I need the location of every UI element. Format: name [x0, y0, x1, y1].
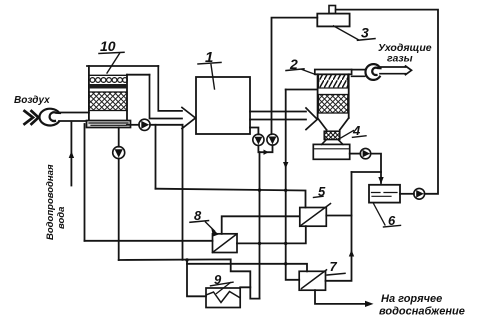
wire: vessel 10 drain V84 down to H3 — [84, 124, 86, 241]
exhaust outlet duct with arrow — [380, 67, 406, 74]
neck to body of 4 — [322, 140, 344, 145]
fan F2 (exhaust fan) — [365, 64, 380, 80]
wire: tank 6 to pump 6 — [400, 193, 414, 195]
svg-text:На горячее: На горячее — [381, 293, 442, 305]
exhaust pipe from vessel 2 lid — [352, 70, 365, 77]
contact economizer 10 (vessel) — [87, 66, 159, 128]
pump PA (right of vessel 10) — [127, 124, 139, 126]
component 4 body — [313, 144, 349, 159]
air inlet symbol — [25, 111, 39, 124]
wire: flue duct box1 to scrubber 2 — [250, 112, 306, 120]
wire: pump PB drain down (V119) — [118, 159, 120, 260]
support plate — [89, 84, 127, 89]
label 4 — [352, 123, 361, 138]
svg-text:Водопроводная: Водопроводная — [45, 164, 56, 240]
fan F1 (air blower) — [39, 109, 60, 126]
pump P1 — [253, 134, 264, 145]
wire: box1 outlet to pump P1 — [250, 128, 258, 135]
wire: drop leg to H1 (node V155) — [155, 125, 157, 189]
wire: pump PA discharge header — [150, 124, 182, 126]
wire: air duct fan to scrubber 10 — [59, 113, 89, 122]
heat exchanger 7 — [299, 271, 325, 290]
water tray — [87, 121, 131, 128]
heat exchanger 8 — [213, 234, 238, 253]
wire: staircase from heater 9 outlet — [240, 287, 259, 298]
label 9 — [214, 272, 222, 287]
label 8 — [194, 208, 202, 223]
wire H1: from V155 to HX5 top — [156, 189, 306, 208]
wire: tap water riser with up arrow — [70, 123, 72, 186]
label Уходящие газы — [378, 42, 432, 65]
wire: main vertical from pump union down (node V260) — [259, 152, 261, 298]
label 2 — [289, 56, 298, 72]
wire: from scrubber 2 down-leg V287 with arrow — [286, 89, 318, 91]
wire: U link under pumps P1 P2 — [258, 145, 272, 152]
pump P4 (after feeder 4) — [350, 153, 361, 155]
bubble caps row — [90, 78, 127, 83]
expansion tank 3 — [317, 14, 349, 27]
duct arrowhead into vessel 2 — [306, 108, 317, 130]
pump PB (under vessel 10) — [118, 128, 120, 147]
svg-text:вода: вода — [56, 207, 67, 229]
wire H3: to heat exchanger 8 inlet — [85, 240, 213, 242]
label 5 — [318, 184, 326, 199]
rotary feeder 4 (hatched valve) — [324, 131, 340, 139]
packing crosshatch — [89, 92, 127, 111]
tank 3 top stub — [329, 6, 336, 14]
electric heater 9 — [206, 288, 240, 308]
wire: HX7 bottom to hot water outlet arrow — [315, 290, 366, 304]
boiler unit 1 — [196, 77, 250, 134]
svg-text:Воздух: Воздух — [14, 95, 50, 106]
arrow on U link — [264, 150, 269, 155]
heat exchanger 5 — [300, 208, 327, 227]
label Водопроводная вода (rotated) — [45, 164, 67, 240]
label 10 — [100, 38, 116, 54]
wire: tank 3 to pump P2 (left loop) — [272, 18, 318, 135]
pump P6 — [414, 188, 425, 199]
svg-text:газы: газы — [387, 53, 413, 65]
duct arrowhead into box 1 — [182, 108, 196, 129]
wire: HX5 right to V351 — [326, 215, 351, 217]
wire: top of V351 to pump 4 discharge column — [352, 171, 382, 173]
wire H6: from V187 to HX7 top — [187, 264, 307, 272]
wire V351: HX7 right riser with up arrow, to tank loop — [326, 172, 352, 281]
arrow down on V287 — [283, 162, 288, 169]
wire: branch V187 down to heater 9 inlet — [187, 260, 206, 296]
junction node dots — [185, 188, 287, 265]
label 1 — [205, 49, 213, 66]
label На горячее водоснабжение — [379, 293, 465, 317]
svg-text:10: 10 — [100, 38, 116, 54]
wire: drop leg V182 down to H5 — [182, 125, 184, 260]
label 6 — [388, 213, 396, 228]
funnel — [318, 118, 349, 130]
svg-text:7: 7 — [330, 259, 338, 274]
wire: tank 3 top to right-side loop down to pump 6 — [336, 10, 438, 194]
wire: pump P4 to tank 6 with down arrow — [371, 154, 381, 183]
label 7 — [330, 259, 338, 274]
svg-text:3: 3 — [361, 25, 369, 41]
label 3 — [361, 25, 369, 41]
storage tank 6 — [369, 185, 400, 203]
svg-text:водоснабжение: водоснабжение — [379, 306, 465, 317]
duct elbow from vessel 10 top to furnace 1 — [158, 66, 182, 111]
wire H4: HX8 right to HX5 bottom — [237, 226, 306, 243]
wire H5: from V119 right, elbow down to heater loop — [119, 259, 251, 287]
pump P2 — [267, 134, 278, 145]
scrubber vessel 2 — [315, 70, 352, 130]
wire H2: HX8 top to HX5 left — [222, 216, 300, 234]
